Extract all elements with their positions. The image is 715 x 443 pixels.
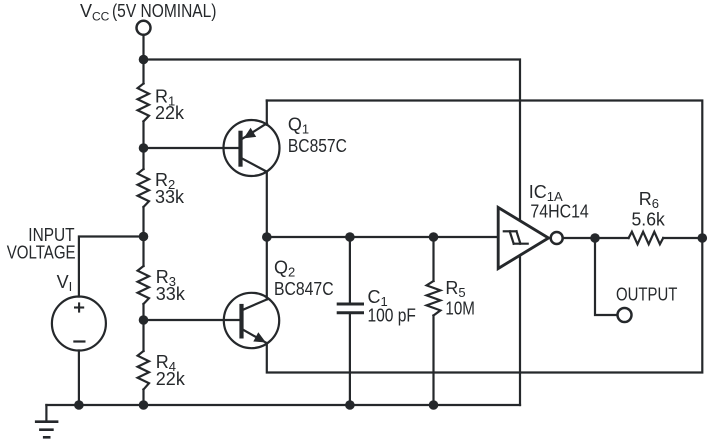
svg-text:10M: 10M (445, 299, 475, 319)
wire output stub (595, 238, 617, 315)
node R5 top junction (429, 232, 439, 242)
OUTPUT terminal circle (618, 308, 632, 322)
VCC terminal circle (137, 21, 151, 35)
wire collector node rail (267, 236, 498, 238)
transistor Q2 (224, 237, 279, 348)
capacitor C1 (337, 237, 364, 405)
svg-text:5.6k: 5.6k (632, 210, 666, 230)
resistor R2 (138, 169, 149, 207)
schmitt inverter IC1A 74HC14 (498, 208, 563, 269)
resistor R6 (629, 232, 664, 244)
svg-text:VOLTAGE: VOLTAGE (7, 243, 76, 263)
node VI ground junction (74, 400, 84, 410)
node R4 ground junction (139, 400, 149, 410)
svg-text:74HC14: 74HC14 (530, 202, 588, 222)
wire Q1 base (144, 147, 239, 149)
wire R1 top lead (142, 60, 144, 84)
node C1 ground junction (345, 400, 355, 410)
svg-text:V: V (80, 1, 92, 21)
node collectors junction (262, 232, 272, 242)
svg-text:22k: 22k (155, 103, 185, 123)
ground (35, 405, 59, 437)
svg-text:OUTPUT: OUTPUT (616, 285, 677, 305)
wire input voltage to divider (79, 237, 144, 297)
node Q1 base junction (139, 143, 149, 153)
wire emitter rail Q1 to feedback (267, 101, 703, 373)
wire Q2 base (144, 319, 240, 321)
svg-text:CC: CC (92, 9, 110, 23)
wire R6 to feedback rail (663, 237, 702, 239)
wire R4 bottom lead (142, 390, 144, 406)
wire inverter output (563, 237, 595, 239)
wire VCC terminal to top rail (142, 35, 144, 60)
resistor R5 (427, 237, 441, 405)
wire R3 top lead (142, 237, 144, 267)
svg-text:BC847C: BC847C (274, 279, 334, 299)
resistor R1 (138, 84, 149, 122)
node input junction (139, 232, 149, 242)
wire VI bottom lead (78, 351, 80, 406)
resistor R4 (138, 351, 149, 390)
node VCC junction (139, 55, 149, 65)
wire R2 bottom lead (142, 207, 144, 237)
svg-text:(5V NOMINAL): (5V NOMINAL) (112, 1, 217, 21)
wire R2 top lead (142, 148, 144, 169)
node C1 top junction (345, 232, 355, 242)
resistor R3 (138, 266, 149, 304)
node Q2 base junction (139, 315, 149, 325)
wire ground rail (46, 404, 520, 406)
svg-text:22k: 22k (156, 369, 186, 389)
label VI minus (73, 340, 85, 342)
svg-text:BC857C: BC857C (288, 136, 347, 156)
svg-text:33k: 33k (156, 284, 186, 304)
svg-text:33k: 33k (155, 187, 185, 207)
source VI (52, 297, 106, 351)
node feedback junction (698, 233, 708, 243)
transistor Q1 (224, 101, 280, 238)
node R5 ground junction (429, 400, 439, 410)
wire R1 bottom lead (142, 121, 144, 148)
svg-text:100 pF: 100 pF (368, 305, 416, 325)
node output junction (590, 233, 600, 243)
label VI plus (74, 302, 84, 312)
wire R4 top lead (142, 320, 144, 351)
wire R3 bottom lead (142, 304, 144, 320)
wire output to R6 (595, 237, 629, 239)
wire top rail to IC power pin (144, 60, 521, 406)
